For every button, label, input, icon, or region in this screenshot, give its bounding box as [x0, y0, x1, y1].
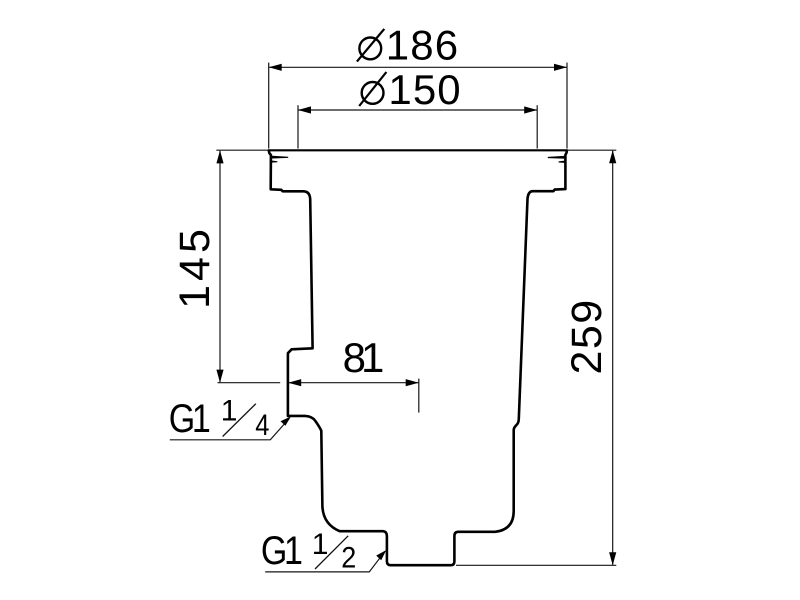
svg-text:2: 2 [341, 541, 356, 575]
svg-text:259: 259 [563, 298, 611, 374]
svg-text:186: 186 [386, 22, 459, 69]
svg-text:1: 1 [221, 395, 238, 428]
svg-text:145: 145 [171, 225, 219, 309]
svg-text:4: 4 [255, 408, 269, 441]
svg-text:150: 150 [388, 66, 461, 113]
svg-text:G1: G1 [169, 395, 209, 440]
svg-text:G1: G1 [261, 528, 301, 573]
svg-text:1: 1 [312, 528, 329, 561]
svg-text:81: 81 [343, 334, 383, 381]
